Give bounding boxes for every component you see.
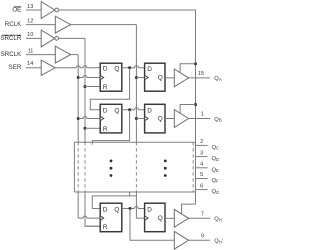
wire SRCLR inverter output: [59, 37, 85, 39]
svg-text:7: 7: [201, 211, 204, 217]
svg-text:QA: QA: [214, 76, 222, 82]
svg-text:4: 4: [200, 162, 203, 168]
wire SRCLR input: [26, 37, 41, 39]
enable bus OE vertical: [195, 10, 197, 204]
wire SRCLK bus to FF H clock (hop over SRCLR bus): [78, 216, 100, 218]
wire SRCLR bus end to FF H reset: [85, 225, 100, 227]
pin 3 stub QD: [196, 150, 220, 162]
node SRCLK to FF B clock: [77, 117, 80, 120]
wire OE enable into buffer B: [180, 105, 195, 114]
storage latch H: [145, 203, 165, 232]
svg-text:Q: Q: [158, 215, 163, 222]
pin 2 stub QC: [196, 139, 220, 151]
wire OE enable into buffer H: [182, 204, 196, 214]
storage latch A: [145, 63, 165, 91]
RCLK bus vertical lower to latch H clock: [136, 192, 144, 218]
wire output QB to pin 1: [189, 118, 211, 120]
node SRCLR to FF A reset: [84, 85, 87, 88]
svg-text:D: D: [103, 108, 108, 115]
svg-text:RCLK: RCLK: [5, 21, 22, 28]
output buffer B (3-state): [174, 110, 188, 128]
wire RCLK buffer output: [71, 24, 137, 26]
wire RCLK bus to latch A clock: [136, 77, 144, 79]
wire latch H Q to output buffer H: [165, 217, 174, 219]
wire chain FF A to FF B D input: [90, 68, 129, 110]
wire SRCLK buffer output: [71, 54, 79, 56]
node RCLK to latch B clock: [135, 117, 138, 120]
ellipsis dots left column: [110, 160, 113, 177]
pin 6 stub QG: [196, 183, 220, 195]
svg-text:9: 9: [201, 233, 204, 239]
svg-text:15: 15: [198, 71, 204, 77]
input label SER (pin 14): [9, 61, 34, 71]
svg-text:OE: OE: [12, 7, 21, 14]
wire SRCLK bus to FF B clock (hop over SRCLR bus): [78, 117, 100, 119]
SRCLR bus dashed through repeated-stage box: [84, 142, 86, 192]
wire OE inverter output to enable bus: [59, 9, 196, 11]
wire FF H Q to latch H D (hop over RCLK lower bus): [122, 207, 145, 209]
shift flip-flop FF B: [100, 104, 122, 133]
SRCLK bus vertical lower to clock of FF H: [77, 192, 79, 218]
output buffer A (3-state): [174, 69, 188, 87]
wire chain hook to FF H D input: [92, 196, 136, 209]
svg-text:QD: QD: [212, 156, 220, 162]
wire SRCLR bus to FF A reset: [85, 86, 100, 88]
shift flip-flop FF H: [100, 203, 122, 232]
svg-text:R: R: [103, 126, 108, 133]
svg-text:D: D: [103, 206, 108, 213]
repeated-stages box (stages C-G): [74, 142, 195, 192]
svg-text:QB: QB: [214, 117, 222, 123]
svg-text:QF: QF: [212, 178, 220, 184]
svg-text:QC: QC: [212, 145, 220, 151]
wire SRCLK input: [26, 54, 56, 56]
svg-text:Q: Q: [114, 206, 119, 213]
wire FF B Q to latch B D (hop over RCLK bus): [122, 108, 145, 110]
svg-text:QG: QG: [212, 189, 220, 195]
SRCLR bus vertical upper: [84, 38, 86, 142]
buffer U4 (SRCLK): [55, 46, 70, 63]
inverter U3 (SRCLR): [41, 30, 58, 47]
input label RCLK (pin 12): [5, 18, 34, 28]
svg-text:1: 1: [201, 112, 204, 118]
svg-text:Q: Q: [158, 75, 163, 82]
svg-text:6: 6: [200, 183, 203, 189]
buffer U2 (RCLK): [55, 16, 70, 33]
pin 5 stub QF: [196, 172, 220, 184]
svg-text:14: 14: [27, 61, 33, 67]
wire QH' tap down to QH' buffer: [130, 209, 174, 241]
svg-text:2: 2: [200, 139, 203, 145]
wire output QH' to pin 9: [189, 239, 211, 241]
svg-text:13: 13: [27, 4, 33, 10]
storage latch B: [145, 104, 165, 133]
svg-text:5: 5: [200, 172, 203, 178]
RCLK bus dashed through repeated-stage box: [135, 142, 137, 192]
wire SRCLR bus to FF B reset: [85, 127, 100, 129]
input label SRCLR (pin 10): [0, 32, 33, 42]
SRCLK bus vertical upper: [77, 55, 79, 143]
pin 4 stub QE: [196, 162, 220, 174]
node OE enable tap row B: [194, 103, 197, 106]
svg-text:QH': QH': [214, 239, 223, 245]
wire chain FF B down into repeated-stage box: [92, 110, 129, 145]
node chain tap QB: [128, 108, 131, 111]
svg-text:QE: QE: [212, 167, 220, 173]
wire latch B Q to output buffer B: [165, 118, 174, 120]
svg-text:12: 12: [27, 18, 33, 24]
wire latch A Q to output buffer A: [165, 77, 174, 79]
svg-text:R: R: [103, 84, 108, 91]
node RCLK to latch A clock: [135, 76, 138, 79]
wire RCLK bus to latch B clock: [136, 118, 144, 120]
svg-text:D: D: [103, 66, 108, 73]
svg-text:D: D: [147, 66, 152, 73]
node QH' tap: [129, 207, 132, 210]
svg-text:10: 10: [27, 32, 33, 38]
svg-text:SRCLK: SRCLK: [1, 51, 23, 58]
wire OE input: [26, 9, 41, 11]
wire chain QG out of box: [129, 192, 131, 196]
SRCLK bus dashed through repeated-stage box: [77, 142, 79, 192]
node SRCLR to FF B reset: [84, 127, 87, 130]
svg-text:D: D: [147, 207, 152, 214]
buffer U5 (SER): [41, 60, 55, 75]
node SRCLK to FF A clock: [77, 76, 80, 79]
wire output QH to pin 7: [189, 217, 211, 219]
svg-text:Q: Q: [114, 108, 119, 115]
wire output QA to pin 15: [189, 77, 211, 79]
svg-text:QH: QH: [214, 217, 222, 223]
svg-text:R: R: [103, 224, 108, 231]
output buffer QH' (serial out): [174, 231, 188, 249]
svg-text:Q: Q: [158, 115, 163, 122]
svg-text:SER: SER: [9, 64, 22, 71]
wire FF A Q to latch A D (hop over RCLK bus): [122, 66, 145, 68]
shift flip-flop FF A: [100, 63, 122, 91]
output buffer H (3-state): [174, 209, 188, 227]
RCLK bus vertical upper: [135, 25, 137, 143]
wire RCLK input: [26, 24, 56, 26]
wire SER to D of FF A (hops over SRCLK and SRCLR buses): [55, 66, 100, 68]
wire OE enable into buffer A: [180, 64, 195, 74]
wire SRCLK bus to FF A clock (hop over SRCLR bus): [78, 76, 100, 78]
svg-text:Q: Q: [114, 66, 119, 73]
svg-text:SRCLR: SRCLR: [0, 35, 22, 42]
input label SRCLK (pin 11): [1, 48, 34, 58]
wire SER input: [26, 67, 41, 69]
SRCLR bus vertical lower to R of FF H: [85, 192, 100, 226]
node OE enable tap row A: [194, 62, 197, 65]
input label OE (pin 13): [12, 4, 33, 14]
svg-text:3: 3: [200, 150, 203, 156]
node chain tap QA: [128, 66, 131, 69]
inverter U1 (OE): [41, 2, 58, 19]
svg-text:D: D: [147, 108, 152, 115]
svg-text:11: 11: [28, 48, 34, 54]
ellipsis dots right column: [164, 160, 167, 177]
